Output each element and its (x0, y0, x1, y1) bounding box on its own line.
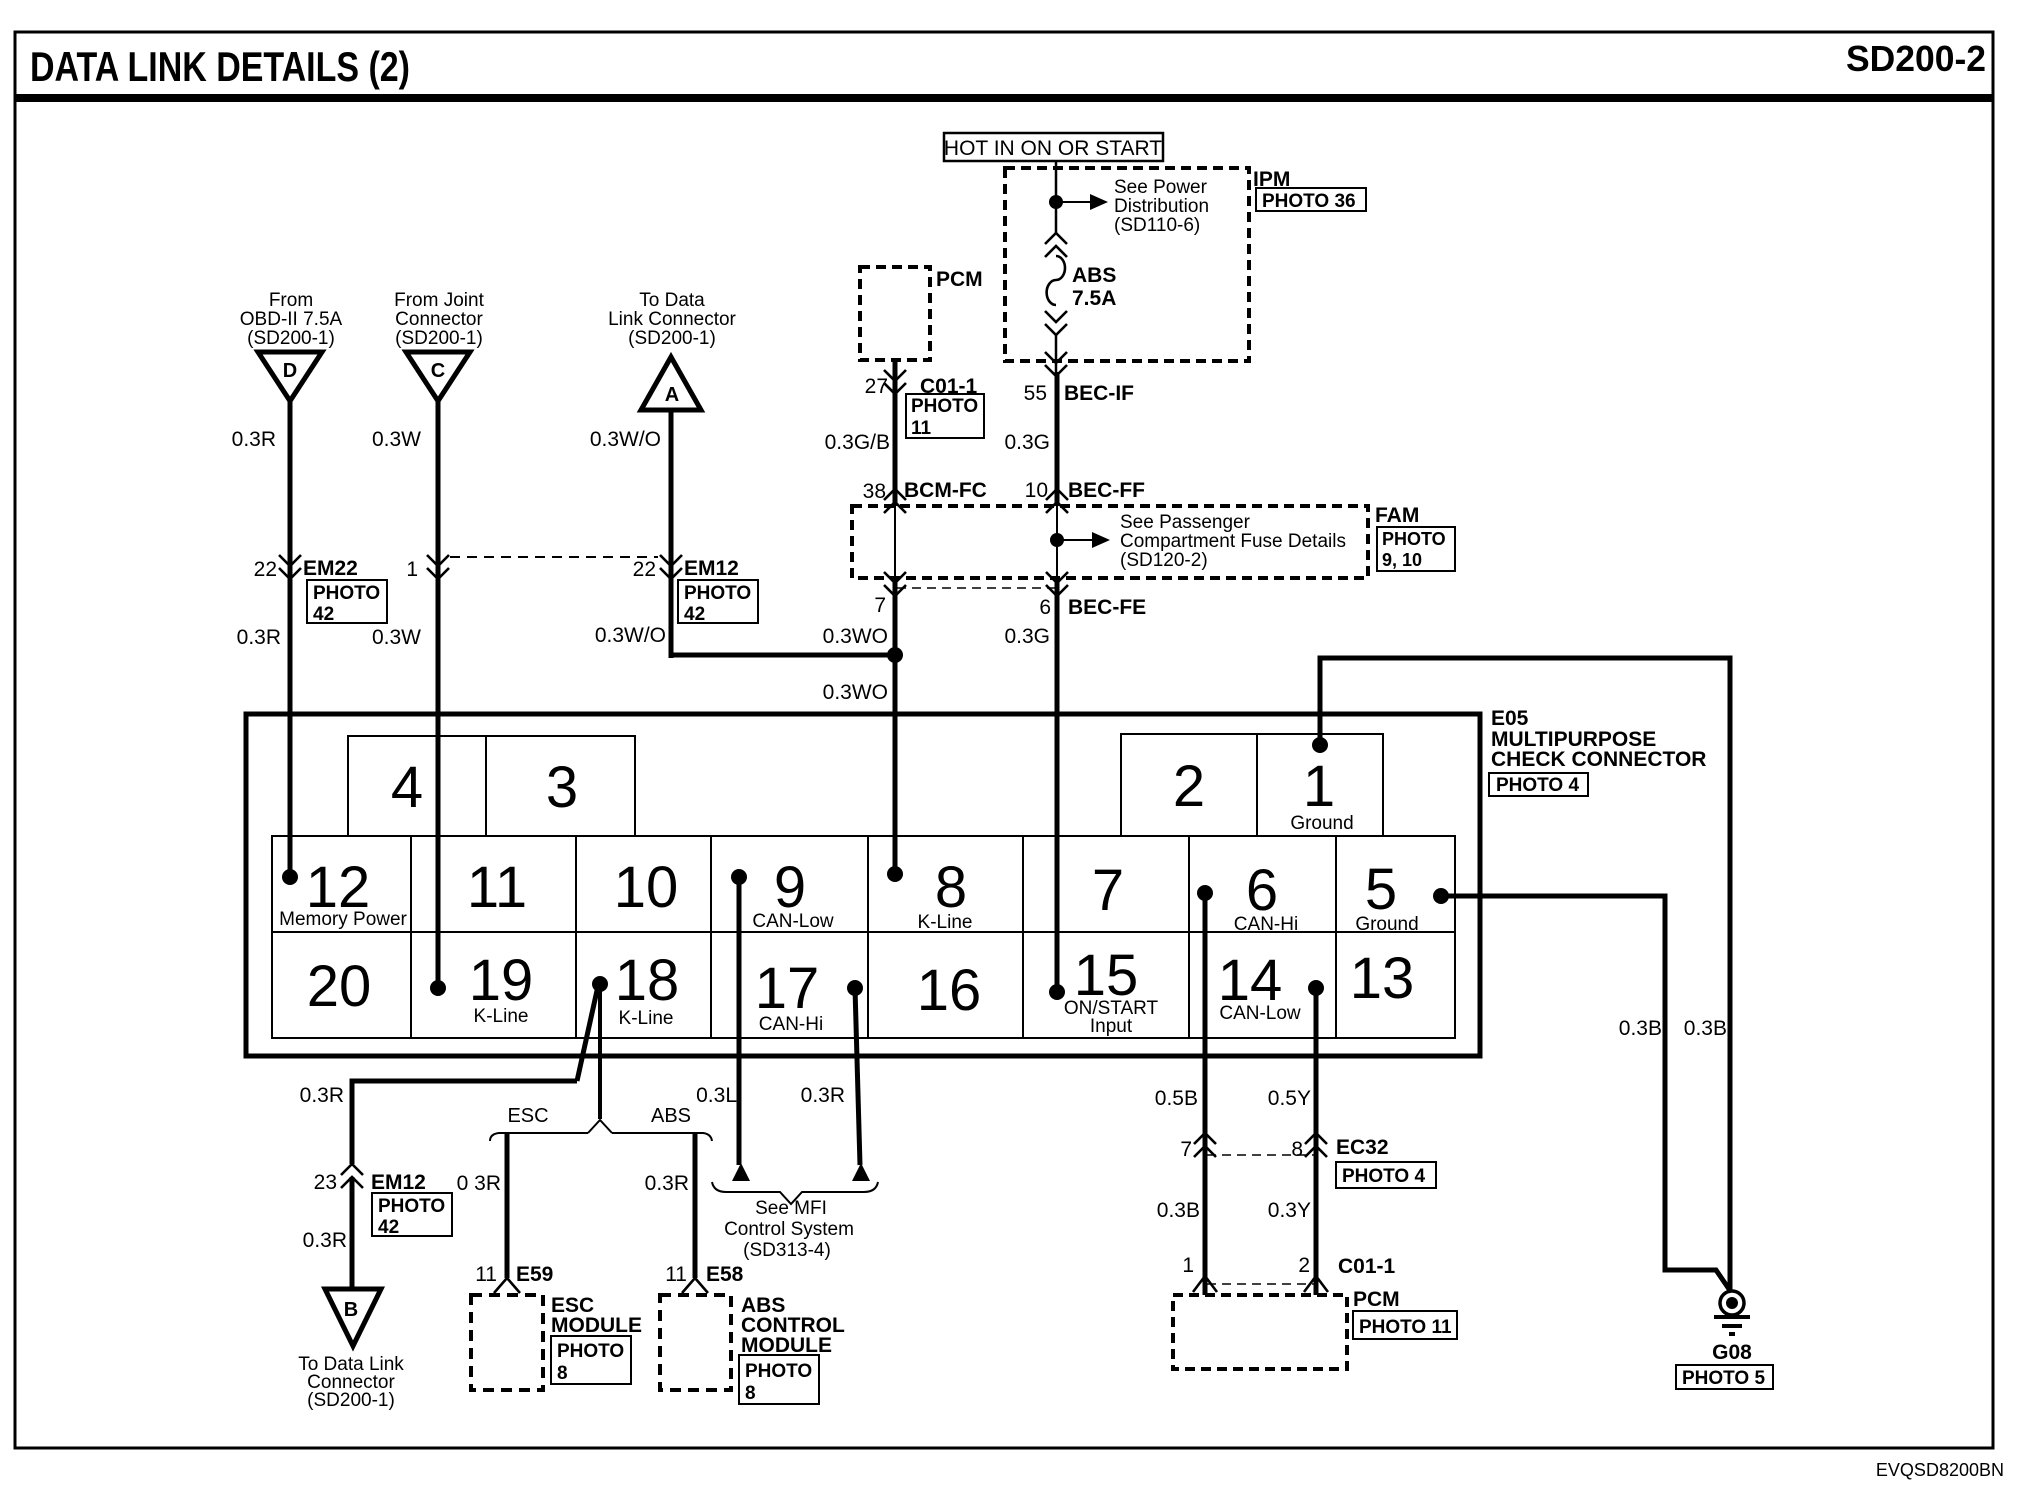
svg-text:Control System: Control System (724, 1219, 854, 1240)
connector C01-1 pin 2 chevron (1304, 1276, 1328, 1292)
label ABS CONTROL MODULE (741, 1294, 845, 1357)
svg-text:0.3Y: 0.3Y (1268, 1199, 1311, 1222)
svg-text:EM12: EM12 (684, 557, 739, 580)
svg-text:CAN-Hi: CAN-Hi (759, 1014, 823, 1035)
ESC MODULE dashed box (471, 1295, 543, 1390)
arrow to See Power Distribution (1056, 194, 1108, 210)
svg-text:0.3G/B: 0.3G/B (825, 431, 890, 454)
wire 0.3W/O from A down (669, 410, 674, 658)
svg-text:4: 4 (391, 755, 423, 820)
title rule (15, 94, 1993, 102)
connector EM12 pin 22 chevron (660, 555, 682, 579)
svg-text:1: 1 (406, 558, 418, 581)
wire fuse to IPM edge (1055, 335, 1058, 372)
E05 label block (1491, 707, 1706, 771)
photo box PHOTO 5 (1676, 1365, 1773, 1389)
node pin 15 (1049, 984, 1065, 1000)
label: To Data Link Connector (SD200-1) (298, 1354, 404, 1411)
connector E58 pin 11 chevron (682, 1278, 708, 1293)
wire elbow from A to junction (671, 653, 892, 658)
photo box PHOTO 11 (906, 394, 984, 439)
ABS CONTROL MODULE dashed box (660, 1295, 731, 1390)
arrow to See Passenger Compartment Fuse Details (1057, 532, 1110, 548)
svg-text:MODULE: MODULE (551, 1314, 642, 1337)
svg-text:11: 11 (665, 1263, 687, 1286)
dashed link C01-1 pins (1207, 1283, 1314, 1285)
photo box PHOTO 42 (EM22) (307, 580, 387, 625)
MFI arrow terminal left (732, 1163, 750, 1181)
svg-text:PHOTO 5: PHOTO 5 (1682, 1368, 1765, 1389)
connector BCM-FC pin 38 chevron (884, 489, 906, 513)
fuse ABS 7.5A (1045, 233, 1067, 335)
svg-text:3: 3 (546, 755, 578, 820)
main pin grid (272, 836, 1455, 1038)
svg-text:9, 10: 9, 10 (1382, 550, 1422, 570)
svg-text:Distribution: Distribution (1114, 196, 1209, 217)
svg-text:Ground: Ground (1355, 914, 1418, 935)
svg-text:SD200-2: SD200-2 (1846, 38, 1986, 79)
svg-text:0.3G: 0.3G (1004, 431, 1050, 454)
svg-text:K-Line: K-Line (918, 912, 973, 933)
svg-text:7: 7 (1092, 858, 1124, 923)
node pin 9 (731, 869, 747, 885)
svg-text:PHOTO: PHOTO (313, 583, 380, 604)
svg-text:PHOTO: PHOTO (684, 583, 751, 604)
ESC/ABS branch bracket (490, 1120, 712, 1141)
wire 0.3B from pin 5 to ground (1441, 896, 1731, 1292)
svg-text:See Power: See Power (1114, 177, 1208, 198)
svg-text:Memory Power: Memory Power (279, 909, 407, 930)
svg-text:22: 22 (254, 558, 277, 581)
connector pin 7 chevron below FAM (884, 572, 906, 596)
svg-text:2: 2 (1298, 1254, 1310, 1277)
svg-text:PHOTO: PHOTO (1382, 529, 1446, 549)
svg-text:7: 7 (1180, 1138, 1192, 1161)
svg-text:Input: Input (1090, 1016, 1133, 1037)
svg-text:PHOTO: PHOTO (911, 396, 978, 417)
svg-text:E59: E59 (516, 1263, 553, 1286)
svg-text:EM22: EM22 (303, 557, 358, 580)
svg-text:CHECK CONNECTOR: CHECK CONNECTOR (1491, 748, 1706, 771)
svg-text:PHOTO 36: PHOTO 36 (1262, 191, 1356, 212)
svg-text:0.3W/O: 0.3W/O (590, 428, 661, 451)
pin 15 label ON/START Input (1064, 998, 1159, 1037)
label: From OBD-II 7.5A (SD200-1) (240, 290, 343, 349)
svg-text:See MFI: See MFI (755, 1198, 827, 1219)
photo box PHOTO 8 (ABS) (739, 1355, 819, 1404)
svg-text:11: 11 (475, 1263, 497, 1286)
svg-text:0.3B: 0.3B (1157, 1199, 1200, 1222)
svg-text:6: 6 (1039, 596, 1051, 619)
node pin 6 (1197, 885, 1213, 901)
wire 0.3G BEC-FE down to pin 15 (1055, 578, 1060, 992)
svg-text:10: 10 (1025, 479, 1048, 502)
svg-text:17: 17 (755, 956, 820, 1021)
svg-text:(SD313-4): (SD313-4) (743, 1240, 831, 1261)
svg-text:0.3WO: 0.3WO (823, 681, 888, 704)
note See MFI Control System (SD313-4) (724, 1198, 854, 1261)
off-page connector B (325, 1289, 381, 1346)
svg-text:To Data: To Data (639, 290, 705, 311)
off-page connector D (258, 352, 322, 401)
svg-text:PHOTO: PHOTO (745, 1361, 812, 1382)
note See Passenger Compartment Fuse Details (SD120-2) (1120, 512, 1346, 571)
note See Power Distribution (SD110-6) (1114, 177, 1209, 236)
wire into IPM (1055, 161, 1058, 234)
connector E59 pin 11 chevron (494, 1278, 520, 1293)
svg-text:10: 10 (614, 855, 679, 920)
svg-text:0.3B: 0.3B (1619, 1017, 1662, 1040)
wire pin 14 down to EC32 pin 8 (1314, 988, 1319, 1295)
IPM dashed box (1005, 168, 1249, 361)
pin box 4|3 (348, 736, 635, 836)
svg-text:0.3R: 0.3R (232, 428, 276, 451)
svg-text:42: 42 (684, 604, 705, 625)
svg-text:ABS: ABS (651, 1105, 691, 1127)
svg-text:EVQSD8200BN: EVQSD8200BN (1876, 1460, 2004, 1480)
svg-text:11: 11 (911, 418, 932, 439)
wire 0.3R from D down to pin 12 (288, 401, 293, 874)
svg-text:23: 23 (314, 1171, 337, 1194)
svg-text:0.3W/O: 0.3W/O (595, 624, 666, 647)
wire pin 9 to MFI (737, 877, 742, 1165)
svg-text:(SD120-2): (SD120-2) (1120, 550, 1208, 571)
svg-text:(SD200-1): (SD200-1) (247, 328, 335, 349)
svg-text:C01-1: C01-1 (1338, 1255, 1396, 1278)
svg-text:From: From (269, 290, 313, 311)
svg-text:0.3B: 0.3B (1684, 1017, 1727, 1040)
svg-text:B: B (344, 1299, 358, 1321)
svg-text:Connector: Connector (395, 309, 483, 330)
svg-text:Compartment Fuse Details: Compartment Fuse Details (1120, 531, 1346, 552)
connector BEC-IF pin 55 chevron (1045, 352, 1067, 376)
svg-text:FAM: FAM (1375, 504, 1419, 527)
wire 0.3G/B PCM to BCM-FC (893, 360, 898, 506)
svg-text:PHOTO 11: PHOTO 11 (1359, 1317, 1452, 1338)
connector EC32 pin 7 chevron (1194, 1133, 1216, 1157)
svg-text:19: 19 (469, 948, 534, 1013)
svg-text:2: 2 (1173, 754, 1205, 819)
wire 0.3G BEC-IF to BEC-FF (1055, 372, 1060, 506)
svg-text:0.3W: 0.3W (372, 428, 421, 451)
svg-text:A: A (665, 384, 679, 406)
svg-text:PCM: PCM (1353, 1288, 1400, 1311)
svg-text:PHOTO 4: PHOTO 4 (1496, 775, 1579, 796)
svg-text:0.3R: 0.3R (645, 1172, 689, 1195)
E05 multipurpose check connector outer box (246, 714, 1480, 1056)
node pin 17 (847, 980, 863, 996)
node pin 1 (1312, 737, 1328, 753)
connector C pin 1 chevron (427, 555, 449, 579)
connector BEC-FE pin 6 chevron (1046, 572, 1068, 596)
svg-text:D: D (283, 360, 297, 382)
svg-text:38: 38 (863, 480, 886, 503)
svg-text:27: 27 (865, 375, 888, 398)
svg-text:Ground: Ground (1290, 813, 1353, 834)
svg-text:16: 16 (917, 958, 982, 1023)
label ESC MODULE (551, 1294, 642, 1337)
svg-text:BEC-FF: BEC-FF (1068, 479, 1145, 502)
photo box PHOTO 4 (EC32) (1336, 1162, 1436, 1188)
svg-text:BEC-IF: BEC-IF (1064, 382, 1134, 405)
svg-text:PHOTO: PHOTO (378, 1196, 445, 1217)
power source box HOT IN ON OR START (944, 133, 1163, 161)
svg-text:CAN-Hi: CAN-Hi (1234, 914, 1298, 935)
pin box 2|1 (1121, 734, 1383, 836)
photo box PHOTO 4 (E05) (1489, 773, 1588, 796)
svg-text:11: 11 (467, 855, 527, 920)
thin wire through FAM (BCM) (894, 506, 896, 578)
thin dashed link pin7-pin6 (897, 587, 1055, 589)
svg-text:(SD110-6): (SD110-6) (1114, 215, 1200, 236)
svg-text:EC32: EC32 (1336, 1136, 1389, 1159)
svg-text:E58: E58 (706, 1263, 744, 1286)
svg-text:18: 18 (615, 948, 680, 1013)
svg-text:BCM-FC: BCM-FC (904, 479, 987, 502)
connector EM22 pin 22 chevron (279, 555, 301, 579)
wire 0.3R to E59 (505, 1133, 510, 1278)
svg-text:Link Connector: Link Connector (608, 309, 736, 330)
svg-text:0.3R: 0.3R (237, 626, 281, 649)
photo box PHOTO 36 (1256, 188, 1366, 212)
fuse label ABS 7.5A (1072, 264, 1116, 310)
wire 0.3WO pin7 to junction (893, 578, 898, 874)
svg-text:0.3R: 0.3R (300, 1084, 344, 1107)
svg-text:1: 1 (1303, 754, 1335, 819)
label: From Joint Connector (SD200-1) (394, 290, 484, 349)
svg-text:8: 8 (935, 855, 967, 920)
svg-text:G08: G08 (1712, 1341, 1752, 1364)
svg-text:8: 8 (557, 1363, 568, 1384)
svg-text:8: 8 (1291, 1138, 1303, 1161)
svg-text:MODULE: MODULE (741, 1334, 832, 1357)
svg-text:CAN-Low: CAN-Low (1219, 1003, 1301, 1024)
PCM top dashed box (860, 267, 930, 360)
svg-text:CAN-Low: CAN-Low (752, 911, 834, 932)
svg-text:PHOTO: PHOTO (557, 1341, 624, 1362)
photo box PHOTO 8 (ESC) (551, 1336, 631, 1384)
svg-text:DATA LINK DETAILS (2): DATA LINK DETAILS (2) (30, 43, 410, 90)
connector EM12 pin 23 chevron (341, 1164, 363, 1188)
svg-text:5: 5 (1365, 857, 1397, 922)
svg-text:PHOTO 4: PHOTO 4 (1342, 1166, 1425, 1187)
label: To Data Link Connector (SD200-1) (608, 290, 736, 349)
svg-text:PCM: PCM (936, 268, 983, 291)
wire 0.3W from C down to pin 19 (436, 401, 441, 988)
svg-text:0.3R: 0.3R (801, 1084, 845, 1107)
dashed link between pin 1 and pin 22 chevrons (450, 556, 658, 558)
svg-text:K-Line: K-Line (619, 1008, 674, 1029)
dashed link EC32 pins (1207, 1154, 1314, 1156)
connector C01-1 pin 1 chevron (1193, 1276, 1217, 1292)
connector C01-1 pin 27 chevron (884, 370, 906, 394)
svg-text:See Passenger: See Passenger (1120, 512, 1251, 533)
off-page connector C (406, 352, 470, 401)
svg-text:(SD200-1): (SD200-1) (307, 1390, 395, 1411)
junction node in FAM (1050, 533, 1064, 547)
svg-text:0.5B: 0.5B (1155, 1087, 1198, 1110)
wire 0.3R horizontal run to EM12 pin 23 (352, 1081, 577, 1164)
svg-text:0.3G: 0.3G (1004, 625, 1050, 648)
wire pin 17 to MFI (855, 988, 860, 1165)
svg-text:From Joint: From Joint (394, 290, 484, 311)
photo box PHOTO 9, 10 (1377, 527, 1455, 571)
wire 0.3R to E58 (693, 1133, 698, 1278)
node pin 12 (282, 869, 298, 885)
PCM dashed box (bottom) (1173, 1295, 1347, 1369)
ground G08 symbol (1714, 1291, 1750, 1334)
photo box PHOTO 42 (EM12 pin23) (372, 1193, 452, 1238)
connector EC32 pin 8 chevron (1305, 1133, 1327, 1157)
node pin 8 (887, 866, 903, 882)
svg-text:OBD-II 7.5A: OBD-II 7.5A (240, 309, 343, 330)
svg-text:C: C (431, 360, 445, 382)
junction node in IPM (1049, 195, 1063, 209)
svg-text:(SD200-1): (SD200-1) (395, 328, 483, 349)
svg-text:1: 1 (1182, 1254, 1194, 1277)
wire pin 18 down to ESC/ABS bracket (598, 984, 602, 1119)
svg-text:0.3R: 0.3R (303, 1229, 347, 1252)
svg-text:7: 7 (874, 594, 886, 617)
node pin 19 (430, 980, 446, 996)
FAM dashed box (852, 506, 1368, 578)
svg-text:ESC: ESC (507, 1105, 548, 1127)
svg-text:EM12: EM12 (371, 1171, 426, 1194)
svg-text:0.3W: 0.3W (372, 626, 421, 649)
svg-text:BEC-FE: BEC-FE (1068, 596, 1146, 619)
svg-text:HOT IN ON OR START: HOT IN ON OR START (944, 137, 1162, 160)
svg-text:0.5Y: 0.5Y (1268, 1087, 1311, 1110)
svg-text:K-Line: K-Line (474, 1006, 529, 1027)
node pin 14 (1308, 980, 1324, 996)
svg-text:55: 55 (1024, 382, 1047, 405)
wire pin 23 down to B (350, 1177, 355, 1289)
svg-text:42: 42 (378, 1217, 399, 1238)
svg-text:7.5A: 7.5A (1072, 287, 1116, 310)
svg-text:13: 13 (1350, 946, 1415, 1011)
svg-text:ABS: ABS (1072, 264, 1116, 287)
svg-text:E05: E05 (1491, 707, 1529, 730)
photo box PHOTO 11 (PCM) (1353, 1311, 1457, 1339)
off-page connector A (641, 357, 701, 410)
svg-text:0.3WO: 0.3WO (823, 625, 888, 648)
MFI arrow terminal right (852, 1163, 870, 1181)
wire pin 6 down to EC32 pin 7 (1203, 893, 1208, 1295)
wire 0.3B from pin 1 to ground (1320, 658, 1730, 1291)
svg-text:20: 20 (307, 954, 372, 1019)
svg-text:(SD200-1): (SD200-1) (628, 328, 716, 349)
node pin 18 (592, 976, 608, 992)
svg-text:42: 42 (313, 604, 334, 625)
wire pin 18 diagonal to 0.3R run (577, 986, 598, 1081)
thin wire through FAM (BEC) (1056, 506, 1058, 578)
junction node A-wire / BCM wire (887, 647, 903, 663)
photo box PHOTO 42 (EM12) (678, 580, 758, 625)
connector BEC-FF pin 10 chevron (1046, 489, 1068, 513)
svg-text:8: 8 (745, 1383, 756, 1404)
MFI bracket (712, 1182, 878, 1204)
node pin 5 (1433, 888, 1449, 904)
svg-text:0.3L: 0.3L (696, 1084, 737, 1107)
svg-text:22: 22 (633, 558, 656, 581)
svg-text:0 3R: 0 3R (457, 1172, 501, 1195)
